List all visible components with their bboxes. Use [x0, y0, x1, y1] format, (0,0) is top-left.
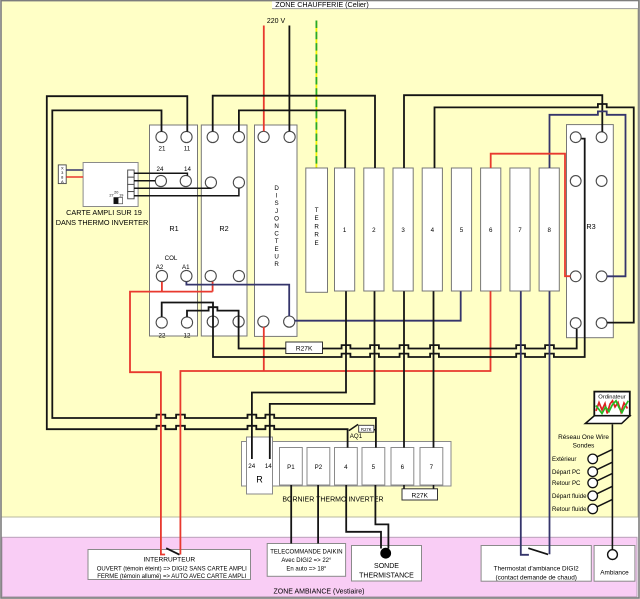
svg-text:E: E: [315, 215, 319, 222]
wire: R2 top-2 to terminal 1: [239, 110, 345, 168]
svg-text:AQ1: AQ1: [350, 433, 363, 440]
connector X38A: [58, 165, 66, 184]
resistor R27K (bornier 6-7): [402, 489, 438, 500]
svg-text:ZONE CHAUFFERIE (Celier): ZONE CHAUFFERIE (Celier): [275, 0, 368, 9]
svg-text:21: 21: [159, 146, 166, 153]
wire: terminal 1 bottom to bornier R 24: [252, 291, 346, 459]
wire: R1 22 through R2 to R3 row1-left (lower bus): [162, 139, 585, 357]
svg-text:R27K: R27K: [361, 427, 372, 432]
svg-text:Réseau One Wire: Réseau One Wire: [558, 434, 609, 441]
svg-text:S: S: [275, 200, 279, 207]
sonde Retour PC: [552, 473, 612, 487]
svg-text:T: T: [315, 207, 319, 214]
computer (ordinateur laptop): [585, 392, 630, 424]
wire: terminal 8 to R3 row3-right (navy): [550, 111, 626, 276]
terminal TERRE: [306, 168, 328, 292]
svg-text:ZONE AMBIANCE (Vestiaire): ZONE AMBIANCE (Vestiaire): [273, 589, 364, 596]
wire: terminal 4 to R3 bottom-right coil: [435, 104, 634, 323]
wire: carte pin1 to R1 terminal 14: [134, 173, 187, 175]
svg-text:SONDE: SONDE: [374, 563, 399, 570]
svg-text:P2: P2: [315, 464, 323, 471]
wire: connector X38A to carte (red): [66, 176, 83, 178]
wire: terminal 3 bottom to bornier 6: [403, 291, 405, 447]
svg-text:R: R: [256, 475, 263, 485]
svg-text:14: 14: [265, 463, 272, 470]
svg-text:24: 24: [157, 166, 164, 173]
wire: computer to ambiance: [611, 424, 613, 549]
interrupteur box: [88, 550, 251, 581]
sonde Départ PC: [552, 462, 612, 476]
svg-text:TELECOMMANDE DAIKIN: TELECOMMANDE DAIKIN: [270, 550, 342, 556]
svg-text:Thermostat d'ambiance DIGI2: Thermostat d'ambiance DIGI2: [494, 566, 579, 573]
svg-text:BORNIER THERMO INVERTER: BORNIER THERMO INVERTER: [282, 497, 383, 504]
wire: resistor R27K to R3 row4-left (upper bus right): [323, 329, 577, 349]
bornier pin 7: [420, 448, 443, 486]
svg-text:A2: A2: [156, 264, 164, 271]
carte ampli (amplifier card): [56, 163, 149, 227]
svg-text:FERME (témoin allumé) => AUTO: FERME (témoin allumé) => AUTO AVEC CARTE…: [97, 574, 246, 580]
sonde Retour fluide: [552, 499, 612, 513]
wire: terminal 2 bottom to bornier R 14: [270, 291, 375, 459]
svg-text:Retour fluide: Retour fluide: [552, 506, 587, 513]
wire: bornier 5 to sonde thermistance: [375, 485, 388, 549]
sonde Départ fluide: [552, 486, 612, 500]
svg-text:22: 22: [159, 333, 166, 340]
terminal 5: [451, 168, 471, 291]
wire earth (green/yellow dashed): [315, 21, 317, 168]
zone ambiance (pink zone): [2, 537, 637, 597]
svg-text:OUVERT (témoin éteint) => DIGI: OUVERT (témoin éteint) => DIGI2 SANS CAR…: [97, 566, 247, 572]
terminal 1: [335, 168, 355, 291]
interrupteur switch blade: [166, 548, 179, 555]
svg-text:24: 24: [248, 463, 255, 470]
svg-text:C: C: [274, 231, 279, 238]
svg-text:D: D: [274, 185, 279, 192]
svg-text:Extérieur: Extérieur: [552, 456, 576, 463]
svg-text:14: 14: [184, 166, 191, 173]
relay R2: [201, 125, 247, 336]
thermostat switch blade: [528, 548, 548, 554]
disjoncteur (circuit breaker): [255, 125, 298, 336]
wire: interrupteur to disjoncteur / terminal 6 (red): [180, 291, 490, 554]
svg-text:THERMISTANCE: THERMISTANCE: [359, 573, 414, 580]
svg-text:1: 1: [343, 227, 347, 234]
svg-text:7: 7: [518, 227, 522, 234]
bornier pin 6: [391, 448, 414, 486]
terminal 7: [510, 168, 530, 291]
svg-text:INTERRUPTEUR: INTERRUPTEUR: [143, 557, 195, 564]
wire: terminal 3 to R3 top-right: [404, 95, 602, 168]
wire: disjoncteur bottom-right to terminal 5 (navy): [295, 291, 461, 320]
svg-text:A: A: [61, 179, 64, 184]
terminal 6: [481, 168, 501, 291]
wire: R2 top-1 to terminal 2: [213, 96, 375, 168]
wire: terminal 7 bottom to thermostat (navy): [521, 291, 529, 555]
wire: terminal 4 bottom to bornier 7: [433, 291, 435, 447]
wire: terminal 6 top to R3 row3-left (red): [491, 154, 571, 277]
wire: terminal 8 bottom to thermostat (navy): [549, 291, 551, 554]
wire: bornier P2 to telecommande: [317, 485, 319, 544]
wire: bornier 4 to sonde thermistance: [346, 485, 381, 549]
svg-text:5: 5: [460, 227, 464, 234]
svg-text:CARTE AMPLI SUR 19: CARTE AMPLI SUR 19: [66, 208, 142, 217]
wire: carte pin3 to R2 row2-1: [134, 187, 211, 189]
svg-text:P1: P1: [287, 464, 295, 471]
svg-text:O: O: [274, 215, 279, 222]
svg-text:11: 11: [184, 146, 191, 153]
svg-text:R27K: R27K: [296, 346, 313, 353]
terminal 3: [393, 168, 413, 291]
svg-text:Départ fluide: Départ fluide: [552, 493, 587, 500]
bornier relay R box: [247, 437, 273, 494]
svg-text:Départ PC: Départ PC: [552, 469, 581, 476]
zone chaufferie title band: [272, 0, 638, 9]
sonde thermistance probe dot: [380, 548, 391, 559]
svg-text:Retour PC: Retour PC: [552, 480, 581, 487]
svg-text:R1: R1: [169, 224, 178, 233]
svg-text:4: 4: [344, 464, 348, 471]
svg-text:220 V: 220 V: [267, 18, 286, 25]
svg-text:E: E: [315, 240, 319, 247]
wire: coil A2/R2 red net to interrupteur: [130, 282, 213, 555]
svg-text:2: 2: [372, 227, 376, 234]
bornier pin P1: [280, 448, 303, 486]
svg-text:6: 6: [401, 464, 405, 471]
ambiance box: [594, 546, 635, 582]
svg-text:U: U: [274, 253, 278, 260]
wire 220V neutral (black): [288, 26, 290, 132]
svg-text:COL: COL: [165, 255, 178, 262]
wire: carte pin2 to R1 terminal 24: [134, 180, 155, 182]
relay R3: [567, 125, 614, 338]
resistor R27K (R2 12 bus): [286, 342, 323, 354]
svg-text:6: 6: [489, 227, 493, 234]
wire: bornier P1 to telecommande: [290, 485, 292, 544]
wire: R1 12 through R2 to resistor R27K (upper bus left): [187, 307, 286, 348]
svg-text:R: R: [314, 223, 319, 230]
svg-text:T: T: [275, 238, 279, 245]
wire: carte pin4 to R2 row2-2: [134, 188, 239, 196]
svg-text:(contact demande de chaud): (contact demande de chaud): [496, 575, 577, 582]
bornier thermo inverter: [242, 442, 452, 504]
svg-text:A1: A1: [182, 264, 190, 271]
sonde thermistance box: [352, 546, 422, 582]
terminal 4: [422, 168, 442, 291]
bornier pin 4: [335, 448, 358, 486]
telecommande daikin box: [267, 544, 345, 577]
svg-text:Ordinateur: Ordinateur: [598, 395, 625, 401]
wire: bornier 7 to resistor R27K: [433, 485, 435, 489]
svg-text:I: I: [276, 193, 278, 200]
thermostat ambiance box: [481, 546, 591, 582]
svg-text:Avec DIGI2 => 22°: Avec DIGI2 => 22°: [281, 558, 332, 564]
svg-text:7: 7: [430, 464, 434, 471]
svg-text:J: J: [275, 208, 278, 215]
svg-text:5: 5: [372, 464, 376, 471]
bornier pin P2: [307, 448, 330, 486]
reseau one wire sondes label: [558, 434, 609, 450]
wire: R1 terminal 11 to bornier pin 4 (long left loop): [47, 96, 348, 447]
wire: connector X38A to carte (navy): [66, 169, 83, 171]
svg-text:R27K: R27K: [411, 492, 428, 499]
svg-text:En auto => 18°: En auto => 18°: [286, 567, 327, 573]
svg-text:4: 4: [431, 227, 435, 234]
relay R1: [150, 125, 198, 340]
sonde Extérieur: [552, 449, 612, 463]
svg-text:19: 19: [119, 193, 123, 197]
svg-text:8: 8: [547, 227, 551, 234]
svg-text:R2: R2: [219, 224, 228, 233]
svg-text:27: 27: [109, 193, 113, 197]
svg-text:R: R: [314, 232, 319, 239]
svg-text:DANS THERMO INVERTER: DANS THERMO INVERTER: [56, 218, 149, 227]
bornier pin 5: [362, 448, 385, 486]
svg-text:Ambiance: Ambiance: [600, 570, 629, 577]
switch AQ1 with resistor R27K: [349, 424, 376, 440]
ambiance node circle: [608, 550, 618, 560]
svg-text:3: 3: [401, 227, 405, 234]
wire 220V phase (red): [263, 26, 265, 132]
svg-text:E: E: [275, 246, 279, 253]
220V label: [267, 18, 286, 25]
svg-text:R: R: [274, 261, 279, 268]
svg-text:R3: R3: [586, 222, 595, 231]
wire: R1 terminal 21 to bornier pin 5: [52, 110, 376, 447]
svg-text:12: 12: [184, 333, 191, 340]
terminal 8: [539, 168, 559, 291]
svg-text:N: N: [274, 223, 278, 230]
svg-text:20: 20: [114, 190, 118, 194]
svg-text:Sondes: Sondes: [573, 443, 595, 450]
wire: coil A1 to disjoncteur bottom-right (navy): [186, 282, 289, 317]
terminal 2: [364, 168, 384, 291]
wire: bornier 6 to resistor R27K: [403, 485, 405, 489]
